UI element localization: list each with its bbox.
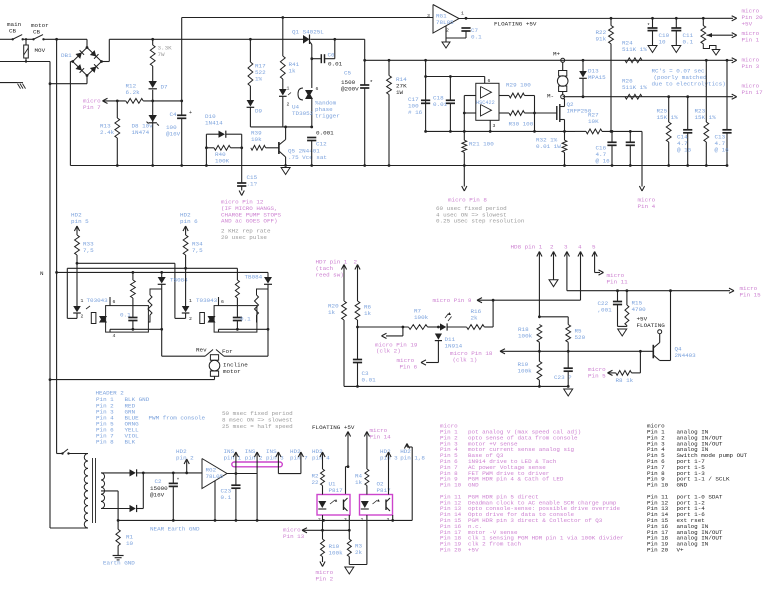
svg-text:Earth GND: Earth GND	[103, 560, 135, 567]
svg-text:Rev: Rev	[196, 347, 207, 354]
svg-text:0.01 1W: 0.01 1W	[536, 143, 561, 150]
svg-text:2: 2	[354, 258, 358, 265]
svg-text:Pin 11: Pin 11	[607, 279, 629, 286]
svg-text:5: 5	[592, 244, 596, 251]
svg-text:pin 6: pin 6	[180, 218, 198, 225]
svg-text:0.01: 0.01	[328, 61, 343, 68]
svg-text:@16V: @16V	[166, 131, 181, 138]
svg-text:10K: 10K	[588, 118, 599, 125]
svg-text:+: +	[189, 110, 192, 116]
svg-text:6.2k: 6.2k	[126, 89, 141, 96]
svg-text:0.01: 0.01	[433, 101, 448, 108]
svg-text:GND: GND	[677, 482, 688, 489]
svg-text:FLOATING +5V: FLOATING +5V	[494, 21, 537, 28]
svg-text:0.1: 0.1	[683, 39, 694, 46]
svg-text:1%: 1%	[255, 76, 263, 83]
svg-text:*: *	[177, 478, 180, 484]
svg-text:Pin 10: Pin 10	[647, 482, 669, 489]
svg-text:HD8 pin 1: HD8 pin 1	[511, 244, 543, 251]
svg-text:0.1: 0.1	[120, 312, 131, 319]
svg-text:pin 2: pin 2	[176, 454, 194, 461]
svg-text:CB: CB	[9, 28, 17, 35]
svg-text:3: 3	[387, 517, 390, 523]
svg-text:D7: D7	[161, 84, 169, 91]
svg-text:6: 6	[316, 86, 319, 92]
svg-text:0.01: 0.01	[362, 377, 377, 384]
svg-text:P817: P817	[329, 487, 344, 494]
svg-text:@16V: @16V	[150, 491, 165, 498]
svg-text:10: 10	[126, 540, 134, 547]
svg-text:1: 1	[189, 298, 192, 304]
svg-text:1: 1	[287, 86, 290, 92]
svg-text:NEAR Earth GND: NEAR Earth GND	[150, 526, 200, 533]
svg-text:C4: C4	[170, 111, 178, 118]
svg-text:1W: 1W	[396, 89, 404, 96]
svg-text:C6: C6	[328, 52, 336, 59]
svg-text:100k: 100k	[518, 333, 533, 340]
svg-text:1: 1	[81, 298, 84, 304]
svg-text:@ 16: @ 16	[677, 147, 692, 154]
svg-text:22: 22	[312, 479, 320, 486]
svg-text:DB1: DB1	[61, 52, 72, 59]
svg-text:6: 6	[488, 78, 491, 84]
svg-text:Pin 2: Pin 2	[316, 576, 334, 583]
svg-text:BLK: BLK	[125, 439, 136, 446]
svg-text:6: 6	[221, 299, 224, 305]
svg-text:Pin 3: Pin 3	[742, 63, 760, 70]
svg-text:2: 2	[550, 244, 554, 251]
svg-text:due to electrolytics): due to electrolytics)	[652, 81, 726, 88]
svg-text:78L05: 78L05	[206, 473, 224, 480]
svg-text:For: For	[222, 348, 233, 355]
svg-text:micro Pin 9: micro Pin 9	[433, 297, 472, 304]
svg-text:reed sw): reed sw)	[316, 272, 344, 279]
svg-text:3: 3	[493, 123, 496, 129]
svg-text:100k: 100k	[518, 368, 533, 375]
svg-text:M-: M-	[547, 93, 554, 100]
svg-text:N: N	[40, 270, 44, 277]
svg-text:0.1: 0.1	[471, 34, 482, 41]
svg-text:2: 2	[287, 102, 290, 108]
svg-text:+5V: +5V	[742, 21, 753, 28]
svg-text:T03043: T03043	[87, 297, 109, 304]
svg-text:4: 4	[113, 333, 116, 339]
svg-text:trigger: trigger	[315, 113, 340, 120]
svg-text:10k: 10k	[251, 136, 262, 143]
svg-text:Pin 4: Pin 4	[638, 203, 656, 210]
svg-text:1k: 1k	[364, 310, 372, 317]
svg-text:15K 1%: 15K 1%	[657, 114, 679, 121]
svg-text:Pin 1: Pin 1	[742, 37, 760, 44]
svg-text:0.1: 0.1	[240, 316, 251, 323]
svg-text:2: 2	[81, 314, 84, 320]
svg-text:pin 2: pin 2	[245, 455, 263, 462]
svg-text:PGM HDR pin 3 direct & Collect: PGM HDR pin 3 direct & Collector of Q3	[468, 517, 603, 524]
svg-text:2: 2	[318, 517, 321, 523]
svg-text:1k: 1k	[328, 309, 336, 316]
svg-text:0.25 uSec step resolution: 0.25 uSec step resolution	[436, 218, 525, 225]
svg-text:91k: 91k	[596, 36, 607, 43]
svg-text:MOV: MOV	[35, 47, 46, 54]
svg-text:2.4k: 2.4k	[100, 129, 115, 136]
svg-text:2k: 2k	[471, 315, 479, 322]
svg-text:3: 3	[344, 517, 347, 523]
svg-text:1N914: 1N914	[445, 343, 463, 350]
svg-text:pin 5: pin 5	[71, 218, 89, 225]
svg-text:+5V: +5V	[468, 547, 479, 554]
svg-text:D9: D9	[255, 108, 263, 115]
svg-text:C12: C12	[316, 141, 327, 148]
svg-text:Q1 S4025L: Q1 S4025L	[292, 29, 324, 36]
svg-text:78L05: 78L05	[436, 19, 454, 26]
svg-text:Pin 20: Pin 20	[647, 547, 669, 554]
svg-text:511K 1%: 511K 1%	[622, 46, 647, 53]
svg-text:2: 2	[361, 517, 364, 523]
svg-text:pin 3: pin 3	[380, 455, 398, 462]
svg-text:# 16: # 16	[408, 109, 423, 116]
svg-text:.75 Vce sat: .75 Vce sat	[288, 154, 327, 161]
svg-text:CB: CB	[33, 29, 41, 36]
svg-text:(clk 1): (clk 1)	[453, 356, 478, 363]
svg-text:micro Pin 8: micro Pin 8	[448, 197, 487, 204]
svg-text:Pin 7: Pin 7	[83, 104, 101, 111]
svg-text:V+: V+	[677, 547, 685, 554]
svg-text:0.1: 0.1	[221, 494, 232, 501]
svg-text:2: 2	[189, 316, 192, 322]
svg-text:100K: 100K	[215, 158, 230, 165]
svg-text:100k: 100k	[329, 549, 344, 556]
svg-text:,001: ,001	[598, 307, 613, 314]
svg-text:0.001: 0.001	[316, 130, 334, 137]
svg-text:R30 100: R30 100	[509, 121, 534, 128]
svg-text:1N474: 1N474	[132, 129, 150, 136]
svg-text:7,5: 7,5	[83, 247, 94, 254]
svg-text:Pin 20: Pin 20	[440, 547, 462, 554]
svg-text:100k: 100k	[414, 314, 429, 321]
svg-text:2N4403: 2N4403	[675, 352, 697, 359]
svg-text:Pin 17: Pin 17	[742, 89, 764, 96]
svg-text:6: 6	[113, 299, 116, 305]
svg-text:(clk 2): (clk 2)	[376, 348, 401, 355]
svg-text:pin 1: pin 1	[224, 455, 242, 462]
svg-text:Pin 15: Pin 15	[740, 292, 762, 299]
svg-text:T03043: T03043	[196, 297, 218, 304]
svg-text:511K 1%: 511K 1%	[622, 84, 647, 91]
svg-text:@ 16: @ 16	[596, 158, 611, 165]
svg-text:FLOATING +5V: FLOATING +5V	[312, 424, 355, 431]
svg-text:1N414: 1N414	[205, 120, 223, 127]
svg-text:15K 1%: 15K 1%	[695, 114, 717, 121]
svg-text:Pin 10: Pin 10	[440, 482, 462, 489]
svg-text:.1?: .1?	[247, 181, 258, 188]
svg-text:FLOATING: FLOATING	[637, 322, 666, 329]
svg-text:*: *	[370, 79, 374, 86]
svg-text:1k: 1k	[355, 479, 363, 486]
svg-text:520: 520	[575, 334, 586, 341]
svg-text:Pin 5: Pin 5	[588, 373, 606, 380]
svg-text:M+: M+	[553, 51, 561, 58]
svg-text:HSC422: HSC422	[476, 100, 495, 106]
svg-text:R29 100: R29 100	[506, 82, 531, 89]
svg-text:4700: 4700	[632, 306, 647, 313]
svg-text:7,5: 7,5	[192, 247, 203, 254]
svg-text:Pin 6: Pin 6	[400, 364, 418, 371]
svg-text:TB084: TB084	[245, 274, 263, 281]
svg-text:10: 10	[659, 39, 667, 46]
svg-text:@200V: @200V	[341, 86, 359, 93]
svg-text:3: 3	[564, 244, 568, 251]
svg-text:@ 16: @ 16	[715, 147, 730, 154]
svg-text:R21 100: R21 100	[469, 141, 494, 148]
svg-text:AND ac GOES OFF): AND ac GOES OFF)	[221, 218, 278, 225]
svg-text:4: 4	[578, 244, 582, 251]
svg-text:PGM HDR pin 4 & Cath of LED: PGM HDR pin 4 & Cath of LED	[468, 476, 564, 483]
svg-text:*: *	[647, 23, 650, 29]
svg-text:1: 1	[461, 11, 464, 17]
svg-text:1k: 1k	[289, 68, 297, 75]
svg-text:Pin 8: Pin 8	[96, 439, 114, 446]
svg-text:20 usec pulse: 20 usec pulse	[221, 234, 267, 241]
svg-text:C5: C5	[344, 70, 352, 77]
svg-text:pin 1,8: pin 1,8	[400, 455, 425, 462]
svg-text:PWM from console: PWM from console	[149, 414, 206, 421]
svg-text:25 msec = half speed: 25 msec = half speed	[222, 423, 293, 430]
svg-text:R8 1k: R8 1k	[616, 377, 634, 384]
svg-text:Pin 14: Pin 14	[370, 433, 392, 440]
svg-text:3: 3	[427, 13, 430, 19]
svg-text:2k: 2k	[355, 549, 363, 556]
svg-text:TD3052: TD3052	[292, 110, 314, 117]
svg-text:pin 3: pin 3	[266, 455, 284, 462]
svg-text:C23 ?: C23 ?	[554, 374, 572, 381]
svg-text:motor: motor	[223, 368, 241, 375]
svg-text:GND: GND	[468, 482, 479, 489]
svg-text:Pin 13: Pin 13	[283, 533, 305, 540]
svg-text:MPA15: MPA15	[588, 74, 606, 81]
svg-text:7W: 7W	[158, 51, 166, 58]
